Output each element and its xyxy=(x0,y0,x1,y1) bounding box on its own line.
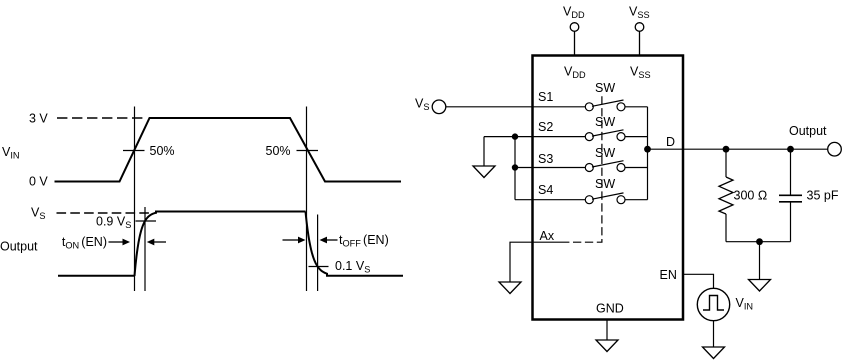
VS source terminal circle xyxy=(432,100,446,114)
tOFF arrow left (pointing right) xyxy=(283,239,299,241)
wire SW2 right contact to output bus xyxy=(625,136,648,138)
switch SW3 xyxy=(585,161,625,172)
wire rail to ground xyxy=(759,242,761,280)
waveform Output trace xyxy=(58,275,135,277)
switch SW2 xyxy=(585,130,625,141)
Output terminal circle xyxy=(828,142,842,156)
VSS terminal circle xyxy=(635,23,644,32)
svg-text:Output: Output xyxy=(789,124,827,138)
resistor RL 300 ohm xyxy=(719,177,733,214)
ground (RC load) xyxy=(749,280,771,292)
svg-text:S3: S3 xyxy=(538,152,553,166)
marker line at 0.9 VS crossing xyxy=(144,207,146,291)
svg-text:GND: GND xyxy=(596,301,624,315)
wire S2 to SW2 left contact xyxy=(484,136,585,138)
wire D to resistor top xyxy=(725,149,727,177)
junction dot bus at S3 xyxy=(512,164,518,170)
junction dot at capacitor tap xyxy=(787,146,794,153)
svg-text:0 V: 0 V xyxy=(29,175,48,189)
ground (Ax) xyxy=(499,282,521,294)
wire SW4 right contact to output bus xyxy=(625,199,648,201)
tON arrow right (pointing left) xyxy=(153,241,166,243)
0.1 VS tick xyxy=(309,266,329,268)
wire bus to ground (S2 level) xyxy=(483,137,485,166)
svg-text:EN: EN xyxy=(660,268,677,282)
ground (VIN) xyxy=(703,347,725,359)
wire VS to SW1 left contact xyxy=(446,106,585,108)
capacitor CL 35 pF xyxy=(779,195,802,202)
50% crossing tick (rising) xyxy=(123,150,145,152)
dashed control line switches to Ax xyxy=(567,96,602,242)
junction dot bus at S2 xyxy=(512,133,518,139)
50% crossing tick (falling) xyxy=(297,150,319,152)
wire left bus S2-S4 xyxy=(514,137,516,200)
svg-text:S4: S4 xyxy=(538,183,553,197)
svg-text:D: D xyxy=(666,135,675,149)
marker line at 0.1 VS crossing xyxy=(317,215,319,292)
voltage source VIN (pulse generator) xyxy=(697,288,729,320)
dashed VS reference line xyxy=(57,212,150,214)
wire SW1 right contact to output bus xyxy=(625,106,648,108)
svg-text:Output: Output xyxy=(0,240,38,254)
waveform VIN trace xyxy=(55,118,402,182)
svg-text:SW: SW xyxy=(595,81,615,95)
VDD terminal circle xyxy=(570,23,579,32)
wire S4 from bus to SW4 left contact xyxy=(515,199,585,201)
ground (GND pin) xyxy=(596,340,618,352)
wire D to capacitor top xyxy=(790,149,792,195)
time marker line t1 (rising edge 50%) xyxy=(134,107,136,292)
wire resistor bottom to rail xyxy=(725,214,727,242)
svg-text:300 Ω: 300 Ω xyxy=(734,188,768,202)
0.9 VS tick xyxy=(136,220,157,222)
svg-text:S1: S1 xyxy=(538,90,553,104)
svg-text:3 V: 3 V xyxy=(29,112,48,126)
wire EN to VIN source xyxy=(683,274,714,288)
wire bottom rail RC xyxy=(726,241,791,243)
wire S3 from bus to SW3 left contact xyxy=(515,167,585,169)
svg-text:50%: 50% xyxy=(150,144,175,158)
switch SW1 xyxy=(585,100,625,111)
svg-text:35 pF: 35 pF xyxy=(807,188,839,202)
wire capacitor bottom to rail xyxy=(790,202,792,242)
junction dot at resistor tap xyxy=(723,146,730,153)
wire Ax to ground xyxy=(510,242,567,282)
dashed 3 V reference line xyxy=(57,117,144,119)
svg-text:SW: SW xyxy=(595,146,615,160)
junction dot bottom rail xyxy=(756,238,763,245)
tOFF arrow right (pointing left) xyxy=(326,239,338,241)
wire VIN to ground xyxy=(713,321,715,347)
ground (S inputs) xyxy=(473,166,495,178)
tON arrow left (pointing right) xyxy=(109,241,124,243)
svg-text:SW: SW xyxy=(595,177,615,191)
svg-text:S2: S2 xyxy=(538,120,553,134)
DUT box U1 xyxy=(533,56,684,320)
wire output bus vertical xyxy=(647,107,649,200)
wire VSS terminal to box xyxy=(639,31,641,55)
wire GND to ground xyxy=(606,320,608,341)
wire SW3 right contact to output bus xyxy=(625,167,648,169)
switch SW4 xyxy=(585,193,625,204)
wire node D to Output terminal xyxy=(648,148,828,150)
wire VDD terminal to box xyxy=(574,31,576,55)
time marker line t2 (falling edge 50%) xyxy=(306,107,308,292)
junction dot node D xyxy=(644,146,651,153)
svg-text:SW: SW xyxy=(595,115,615,129)
svg-text:Ax: Ax xyxy=(540,229,555,243)
svg-text:50%: 50% xyxy=(266,144,291,158)
